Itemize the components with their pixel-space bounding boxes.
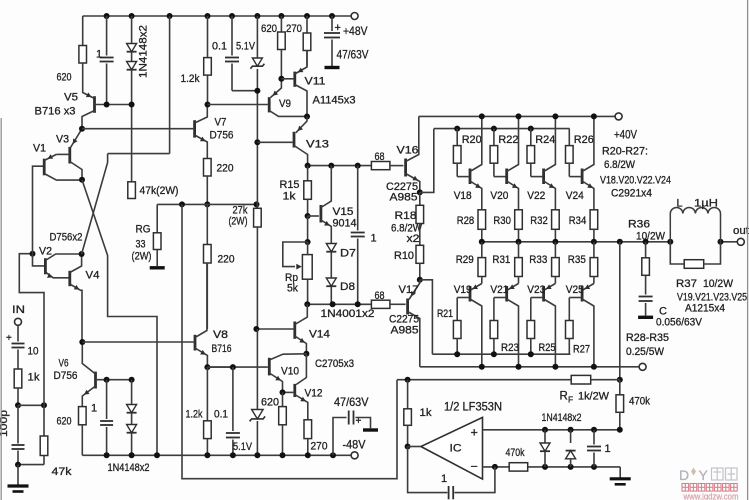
- svg-text:220: 220: [217, 163, 234, 175]
- svg-text:V22: V22: [527, 190, 545, 202]
- resistor 620 (V6 emitter): [79, 407, 87, 425]
- svg-text:V5: V5: [64, 92, 78, 104]
- wire +40V rail: [419, 115, 615, 117]
- resistor 470k (- input): [509, 463, 528, 471]
- wire rail drop right of V5: [169, 16, 171, 154]
- resistor 620 (V5 emitter): [82, 16, 84, 46]
- svg-text:D756: D756: [210, 130, 234, 142]
- svg-text:V4: V4: [86, 270, 100, 282]
- svg-text:270: 270: [286, 23, 302, 35]
- node feedback line: [204, 201, 210, 207]
- node V13 base: [254, 139, 260, 145]
- node V14 emitter / V10 V12 collectors: [303, 351, 309, 357]
- svg-text:A985: A985: [391, 325, 419, 337]
- resistor R29 (emitter lower): [481, 242, 483, 258]
- svg-text:620: 620: [261, 397, 279, 409]
- node Rp top: [307, 216, 309, 242]
- wire op-amp + input line: [483, 429, 620, 431]
- transistor V6: [94, 372, 97, 389]
- transistor V12: [293, 384, 296, 397]
- wire cross diagonal B: [82, 154, 108, 254]
- wire VAS upper line: [308, 165, 372, 167]
- resistor 1k (servo): [407, 380, 409, 409]
- node V16 emitter: [417, 189, 423, 195]
- resistor R21 (base lower): [456, 298, 458, 321]
- svg-text:R15: R15: [280, 179, 300, 191]
- diode 1N4148 (clamp A): [544, 430, 546, 443]
- svg-text:Y: Y: [699, 467, 709, 483]
- svg-text:1.2k: 1.2k: [186, 409, 203, 421]
- svg-text:0.25/5W: 0.25/5W: [626, 346, 665, 358]
- terminal -48V: [351, 452, 358, 459]
- wire upper base bus: [434, 128, 570, 130]
- svg-text:+48V: +48V: [343, 24, 368, 38]
- diode D8: [326, 278, 336, 286]
- svg-text:IN: IN: [12, 304, 25, 316]
- svg-text:V21: V21: [490, 284, 508, 296]
- node 620 / V9 emitter / V11 base: [278, 76, 284, 82]
- svg-text:B716: B716: [212, 343, 232, 355]
- svg-text:R21: R21: [437, 308, 453, 320]
- svg-text:R34: R34: [569, 215, 587, 227]
- svg-text:68: 68: [375, 290, 385, 302]
- svg-text:V17: V17: [399, 284, 419, 296]
- transistor V15 9014: [319, 205, 322, 223]
- resistor R27 (base lower): [568, 298, 570, 321]
- node V2/V4 collectors: [79, 251, 85, 257]
- svg-text:1.2k: 1.2k: [181, 73, 200, 85]
- transistor V2: [44, 258, 47, 274]
- resistor R34 (emitter): [590, 210, 598, 230]
- transistor V17: [406, 299, 409, 315]
- svg-text:47/63V: 47/63V: [334, 395, 369, 409]
- svg-text:R26: R26: [574, 134, 594, 146]
- resistor 470k (servo): [619, 380, 621, 395]
- diodes 1N4148x2 (top pair): [131, 16, 133, 44]
- capacitor C 0.056/63V: [639, 296, 653, 298]
- wire RF line: [397, 379, 571, 381]
- svg-text:620: 620: [57, 416, 72, 428]
- resistor 220 (lower): [206, 204, 208, 244]
- svg-text:out: out: [733, 225, 749, 237]
- node V5 collector / V3 emitter / V7 base: [79, 126, 85, 132]
- transistor V18: [469, 169, 472, 185]
- svg-text:470k: 470k: [506, 447, 525, 459]
- svg-text:V10: V10: [281, 366, 299, 378]
- resistor 620 (V9/V11 bias): [280, 16, 282, 32]
- node RF junction: [617, 377, 623, 383]
- terminal +40V: [615, 113, 622, 120]
- svg-text:R33: R33: [529, 254, 547, 266]
- node L right: [718, 239, 724, 245]
- svg-text:R28-R35: R28-R35: [626, 332, 669, 344]
- svg-text:A1145x3: A1145x3: [313, 95, 356, 107]
- svg-text:−: −: [471, 460, 478, 474]
- wire V15 base: [308, 215, 319, 217]
- svg-text:+: +: [471, 426, 478, 440]
- resistor 220 (V7 emitter): [204, 159, 212, 177]
- svg-text:10: 10: [28, 346, 39, 358]
- node 1.2k / V7 collector / V9 base: [205, 102, 211, 108]
- wire -V bus: [420, 366, 639, 368]
- svg-text:R35: R35: [568, 254, 586, 266]
- svg-text:0.056/63V: 0.056/63V: [656, 317, 703, 329]
- ground (-48V cap): [363, 428, 378, 431]
- ground (input): [17, 465, 19, 485]
- terminal -40V: [639, 363, 646, 370]
- resistor 1.2k (V8 emitter): [206, 367, 208, 421]
- wire input ground link: [18, 464, 44, 466]
- svg-text:R32: R32: [530, 215, 548, 227]
- svg-text:x2: x2: [407, 233, 420, 245]
- svg-text:+: +: [335, 22, 341, 34]
- resistor 270 (V11 emitter): [306, 16, 308, 33]
- wire V1 base: [33, 166, 44, 254]
- svg-text:F: F: [568, 395, 573, 405]
- diode 1N4148 (clamp B): [570, 430, 572, 443]
- svg-text:D756x2: D756x2: [50, 232, 83, 244]
- ground (+48V cap): [325, 66, 340, 69]
- transistor V8: [194, 335, 197, 351]
- svg-text:33: 33: [136, 239, 146, 251]
- svg-text:1: 1: [605, 443, 611, 455]
- svg-text:5.1V: 5.1V: [236, 41, 256, 53]
- resistor R32 (emitter): [552, 210, 560, 230]
- capacitor 0.1 (top): [231, 16, 233, 56]
- inductor L 1uH: [670, 207, 720, 241]
- svg-text:V25: V25: [566, 284, 584, 296]
- resistor 68 (upper): [371, 162, 390, 170]
- resistor 47k(2W): [128, 182, 136, 199]
- svg-text:1k: 1k: [420, 407, 433, 419]
- svg-text:C2921x4: C2921x4: [611, 188, 652, 200]
- svg-text:V7: V7: [215, 117, 227, 129]
- svg-text:(2W): (2W): [132, 251, 152, 263]
- svg-text:1: 1: [441, 473, 447, 485]
- svg-text:V12: V12: [305, 388, 323, 400]
- svg-text:220: 220: [218, 254, 235, 266]
- transistor V4: [68, 271, 71, 286]
- transistor V24: [581, 169, 584, 185]
- zener 5.1V (lower): [256, 329, 258, 410]
- transistor V13: [293, 132, 296, 148]
- capacitor 10 (input coupling): [17, 325, 19, 341]
- resistor R37 10/2W: [670, 242, 684, 264]
- ground (servo): [619, 467, 621, 478]
- svg-text:+40V: +40V: [614, 128, 637, 142]
- svg-text:1k: 1k: [283, 191, 297, 203]
- capacitor 1 (top left): [106, 16, 108, 56]
- svg-text:470k: 470k: [629, 396, 650, 408]
- transistor V14: [293, 322, 296, 339]
- capacitor 1 (V6 bias): [106, 380, 108, 419]
- node L left: [667, 239, 673, 245]
- svg-text:R23: R23: [501, 342, 519, 354]
- svg-text:620: 620: [261, 23, 277, 35]
- resistor R18 6.8/2W: [419, 192, 421, 205]
- svg-text:A1215x4: A1215x4: [685, 303, 725, 315]
- svg-text:V18.V20.V22.V24: V18.V20.V22.V24: [600, 175, 671, 187]
- resistor 270 (V12 emitter): [304, 420, 312, 439]
- wire lower base bus riser: [420, 280, 433, 354]
- svg-text:620: 620: [57, 72, 72, 84]
- svg-text:D: D: [679, 467, 689, 483]
- svg-text:R37: R37: [676, 278, 697, 290]
- svg-text:1N4001x2: 1N4001x2: [321, 308, 375, 320]
- svg-text:V1: V1: [33, 143, 46, 155]
- wire lower base bus: [432, 353, 570, 355]
- ground (RG): [150, 266, 165, 269]
- wire feedback to input stage: [182, 204, 397, 478]
- wire input to base riser: [19, 254, 44, 406]
- svg-text:68: 68: [375, 151, 385, 163]
- wire upper base bus riser: [420, 129, 434, 193]
- wire VAS lower line: [307, 303, 371, 305]
- wire output rail: [482, 241, 670, 243]
- svg-text:R36: R36: [628, 219, 650, 231]
- capacitor 47/63V (-48V filter): [333, 418, 347, 456]
- op-amp IC 1/2 LF353N: [421, 417, 483, 479]
- svg-text:47k: 47k: [52, 466, 73, 478]
- wire V2 base: [33, 254, 45, 266]
- node R36 tap: [643, 239, 649, 245]
- capacitor 100p: [17, 405, 19, 443]
- svg-text:R: R: [560, 391, 568, 403]
- svg-text:D7: D7: [340, 248, 356, 260]
- scan edge right: [747, 0, 749, 500]
- svg-text:1N4148x2: 1N4148x2: [108, 462, 150, 474]
- node op-amp output: [405, 444, 411, 450]
- terminal +48V: [351, 13, 358, 20]
- svg-text:R20-R27:: R20-R27:: [602, 146, 648, 158]
- resistor R25 (base lower): [530, 298, 532, 321]
- node V17 emitter: [417, 277, 423, 283]
- resistor 27k(2W): [256, 142, 258, 208]
- svg-text:A985: A985: [390, 192, 418, 204]
- transistor V1: [43, 159, 46, 176]
- transistor V5: [93, 96, 96, 113]
- svg-text:R28: R28: [457, 215, 475, 227]
- wire feedback node line: [157, 203, 256, 205]
- svg-text:0.1: 0.1: [212, 41, 227, 53]
- svg-text:V23: V23: [527, 284, 545, 296]
- transistor V11: [293, 72, 296, 87]
- svg-text:R20: R20: [462, 134, 482, 146]
- svg-text:10/2W: 10/2W: [636, 230, 666, 242]
- svg-text:V11: V11: [305, 76, 326, 88]
- transistor V19: [469, 286, 472, 302]
- svg-text:D8: D8: [340, 281, 355, 293]
- node V1/V2 base split: [30, 251, 36, 257]
- transistor V25: [581, 286, 584, 302]
- resistor R22 (base): [491, 126, 497, 132]
- potentiometer Rp 5k: [283, 242, 308, 267]
- svg-text:www.jqdzw.com: www.jqdzw.com: [683, 492, 739, 500]
- svg-text:V3: V3: [56, 134, 69, 146]
- svg-text:1k: 1k: [28, 372, 41, 384]
- transistor V20: [505, 169, 508, 185]
- capacitor 1 (servo +): [593, 430, 595, 445]
- svg-text:(2W): (2W): [229, 216, 248, 228]
- node V6 collector / V8 base: [79, 339, 85, 345]
- svg-text:1k/2W: 1k/2W: [578, 391, 610, 403]
- svg-text:R25: R25: [539, 342, 556, 354]
- wire -48V bus: [82, 454, 351, 456]
- node V15 base: [305, 213, 311, 219]
- transistor V3: [68, 147, 71, 164]
- svg-text:V9: V9: [279, 98, 291, 110]
- node V1/V3 collectors: [79, 177, 85, 183]
- svg-text:R31: R31: [492, 254, 510, 266]
- terminal out: [737, 238, 744, 245]
- wire cross diagonal A: [82, 180, 157, 456]
- svg-text:9014: 9014: [333, 218, 357, 230]
- node feedback tap: [617, 239, 623, 245]
- node V11/V9/V13 junction: [304, 114, 310, 120]
- svg-text:R18: R18: [395, 210, 417, 222]
- scan edge left: [0, 118, 2, 500]
- svg-text:V16: V16: [397, 145, 419, 157]
- svg-text:C2705x3: C2705x3: [315, 358, 354, 370]
- svg-text:L: L: [677, 198, 683, 210]
- wire V8 emitter line to V10: [207, 366, 233, 368]
- resistor RF 1k/2W: [571, 375, 591, 384]
- svg-text:0.1: 0.1: [214, 409, 228, 421]
- diode D7: [326, 244, 336, 252]
- transistor V21: [505, 286, 508, 302]
- resistor 1k (input series): [14, 369, 22, 388]
- svg-text:270: 270: [311, 441, 328, 453]
- transistor V10: [268, 358, 271, 376]
- svg-text:V18: V18: [454, 190, 472, 202]
- node input divider: [15, 402, 21, 408]
- svg-text:-48V: -48V: [343, 438, 366, 452]
- resistor R24 (base): [528, 126, 534, 132]
- resistor R15 1k: [307, 166, 309, 181]
- svg-text:+: +: [356, 416, 362, 427]
- svg-text:IC: IC: [450, 443, 462, 455]
- svg-text:47/63V: 47/63V: [337, 48, 369, 62]
- svg-text:V2: V2: [39, 246, 52, 258]
- diodes 1N4148x2 (lower pair): [131, 380, 133, 405]
- svg-text:5.1V: 5.1V: [233, 441, 253, 453]
- resistor R30 (emitter): [515, 210, 523, 230]
- svg-text:V15: V15: [333, 206, 354, 218]
- svg-text:5k: 5k: [287, 283, 298, 295]
- svg-text:1N4148x2: 1N4148x2: [138, 25, 150, 78]
- resistor R28 (emitter): [478, 210, 486, 230]
- ground (Zobel): [638, 316, 653, 319]
- node V14 base: [253, 326, 259, 332]
- node V12 base / 620: [280, 389, 286, 395]
- svg-text:R27: R27: [573, 344, 590, 356]
- svg-text:R22: R22: [498, 134, 518, 146]
- transistor V16: [404, 159, 407, 177]
- resistor 1.2k (V9 base bias): [207, 16, 209, 58]
- svg-text:10/2W: 10/2W: [703, 278, 734, 290]
- resistor R10: [419, 224, 421, 246]
- resistor 47k (input shunt): [43, 405, 45, 436]
- svg-text:V14: V14: [309, 329, 330, 341]
- wire input node to 47k: [18, 404, 44, 406]
- svg-text:D756: D756: [54, 370, 78, 382]
- capacitor 1 (VAS): [357, 166, 359, 231]
- svg-text:1/2 LF353N: 1/2 LF353N: [444, 402, 502, 414]
- capacitor 1 (servo feedback): [408, 447, 448, 493]
- resistor R33 (emitter lower): [554, 242, 556, 258]
- svg-text:1µH: 1µH: [694, 198, 718, 210]
- svg-text:R29: R29: [456, 254, 474, 266]
- wire +48V rail: [83, 15, 352, 17]
- svg-text:R30: R30: [493, 215, 511, 227]
- resistor R31 (emitter lower): [518, 242, 520, 258]
- svg-text:V19: V19: [454, 284, 472, 296]
- transistor V23: [542, 286, 545, 302]
- resistor 620 (V10 emitter): [282, 392, 284, 406]
- svg-text:V24: V24: [566, 190, 584, 202]
- svg-text:+: +: [6, 333, 12, 344]
- resistor 68 (lower): [371, 300, 390, 308]
- svg-text:47k(2W): 47k(2W): [140, 185, 179, 197]
- svg-text:V20: V20: [490, 190, 508, 202]
- svg-text:1: 1: [371, 233, 377, 245]
- svg-text:V6: V6: [59, 358, 69, 370]
- zener 5.1V (top): [256, 16, 258, 58]
- svg-text:R10: R10: [394, 250, 414, 262]
- svg-text:B716 x3: B716 x3: [35, 106, 76, 118]
- svg-text:6.8/2W: 6.8/2W: [604, 159, 636, 171]
- resistor R36 10/2W: [645, 242, 647, 258]
- wire output rail right: [721, 241, 738, 243]
- svg-text:V8: V8: [213, 329, 228, 341]
- resistor R20 (base): [454, 126, 460, 132]
- transistor V7: [193, 120, 196, 137]
- resistor R35 (emitter lower): [593, 242, 595, 258]
- svg-text:V13: V13: [306, 139, 329, 151]
- svg-text:1: 1: [91, 403, 97, 415]
- resistor R26 (base): [568, 129, 570, 146]
- capacitor 47/63V (+48V filter): [331, 16, 333, 31]
- resistor RG 33 (2W): [156, 204, 158, 232]
- svg-text:1: 1: [96, 49, 102, 61]
- wire op-amp - input line: [483, 466, 621, 468]
- node V8 emitter: [204, 364, 210, 370]
- svg-text:R24: R24: [535, 134, 555, 146]
- transistor V22: [542, 169, 545, 185]
- wire feedback column: [619, 242, 621, 380]
- capacitor 0.1 (V8 emitter): [232, 367, 234, 431]
- transistor V9: [268, 97, 271, 112]
- resistor R23 (base lower): [493, 298, 495, 321]
- svg-text:RG: RG: [136, 224, 151, 236]
- svg-text:1N4148x2: 1N4148x2: [542, 412, 582, 424]
